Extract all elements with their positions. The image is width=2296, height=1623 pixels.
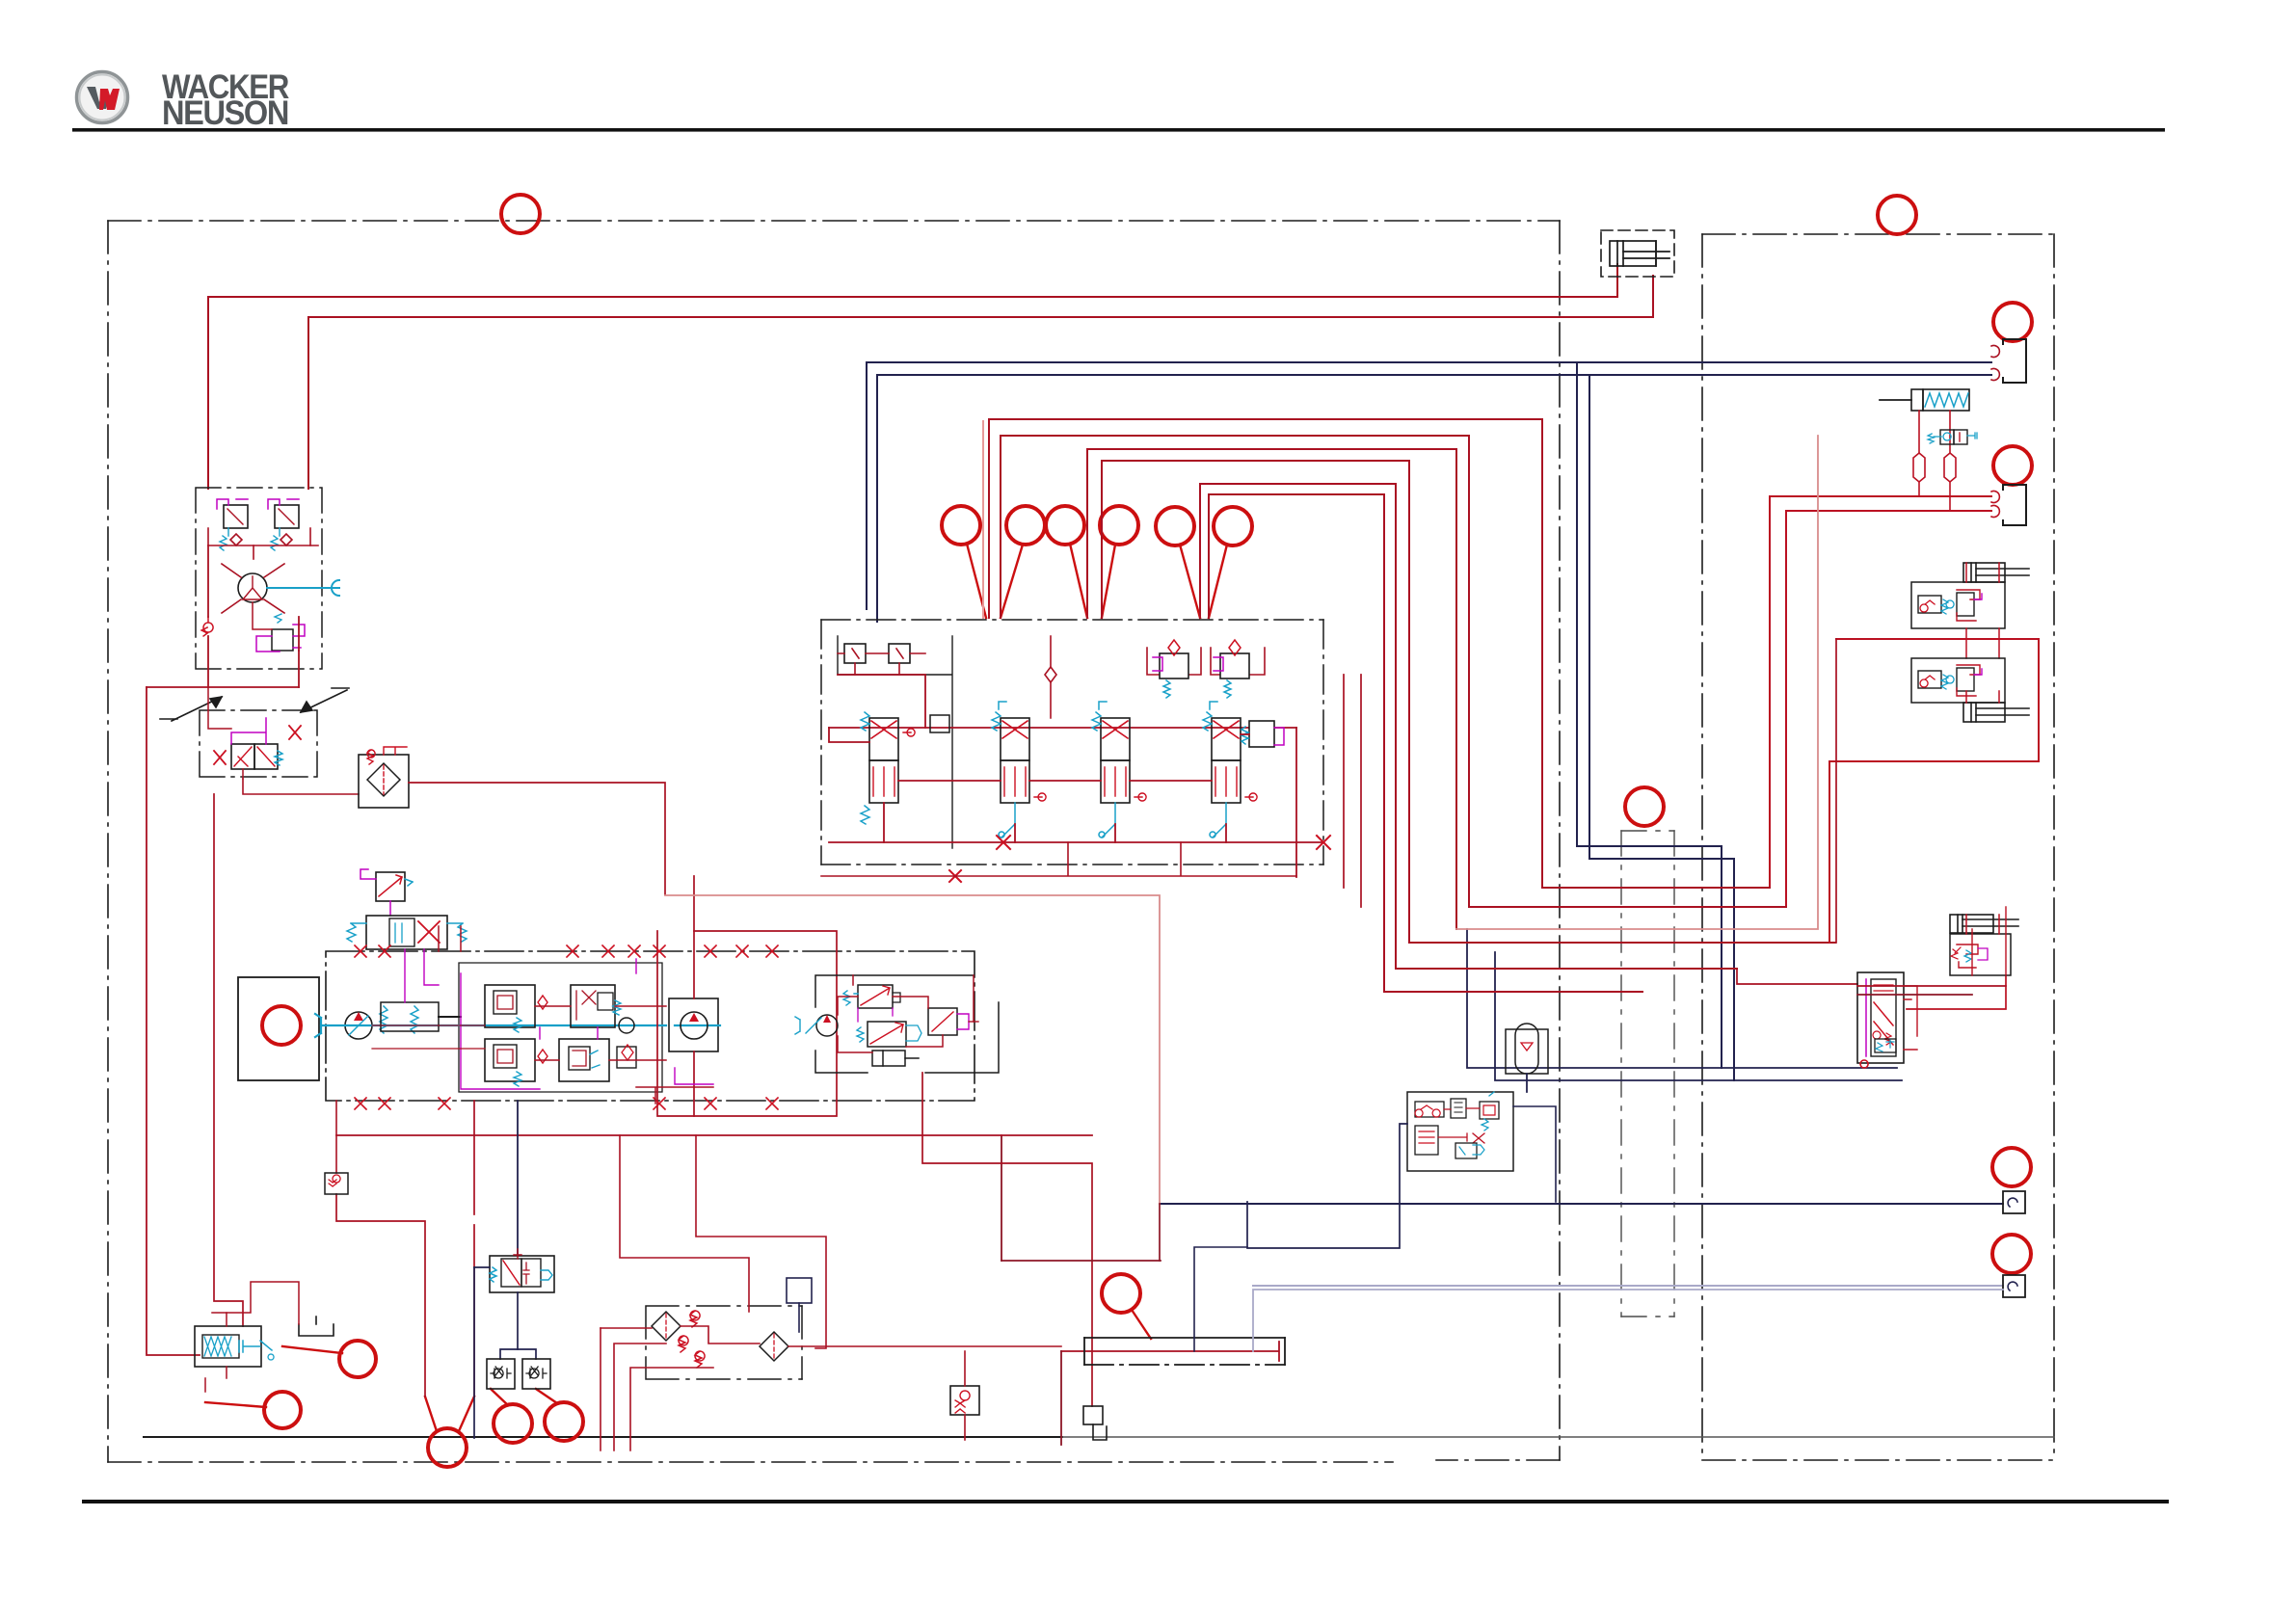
brake valve B2 (268, 499, 299, 550)
regulator valve top (360, 869, 413, 916)
footer rule (82, 1500, 2169, 1503)
pilot block C (571, 985, 621, 1027)
brake valve ports (208, 687, 359, 794)
pilot block D (559, 1039, 636, 1081)
coupler bracket 3 (2003, 1191, 2025, 1213)
orifice block 1 (487, 1359, 515, 1389)
cylinder CU (1963, 563, 2029, 582)
steering unit cluster (1857, 907, 2018, 1068)
spool valve S2 (992, 702, 1046, 838)
orifice block 2 (522, 1359, 550, 1389)
wire red drops under pump (336, 1194, 425, 1397)
supply bus to hand pump (147, 686, 299, 688)
control valve 4way (347, 916, 467, 949)
solenoid pilot unit (1880, 389, 1969, 453)
coupler hooks top (1991, 345, 1999, 380)
navy riser right of cluster (1513, 1074, 1556, 1202)
tank bracket (299, 1317, 334, 1336)
stair 4 (1102, 461, 1835, 943)
capsule drops (1919, 482, 1950, 511)
wire navy pilot B (877, 375, 1991, 622)
arrow marks (160, 688, 349, 721)
wire navy steering pilot A (1467, 929, 1897, 1068)
balloon valvebank 6 (1214, 507, 1252, 545)
gear pump P2 (681, 1012, 707, 1039)
navy branch to orifices (474, 1267, 536, 1438)
stair 2 (1001, 436, 1786, 907)
balloon right lower coupler 2 (1992, 1235, 2031, 1273)
stabilizer cylinder (1610, 241, 1669, 266)
balloon left-box top (501, 195, 540, 233)
red internals pump (372, 926, 713, 1104)
inner corridor dashed box (1621, 831, 1674, 1317)
pressure compensator block A (485, 985, 547, 1032)
balloon drain (428, 1428, 467, 1467)
bank feed bus (829, 675, 1296, 728)
accumulator capsule 2 (1944, 453, 1956, 482)
navy line to lower coupler (1160, 1203, 2003, 1205)
spool valve S1 (861, 712, 915, 824)
lavender line segment (1253, 1290, 2003, 1351)
navy sensor square (787, 1278, 812, 1332)
wire red feed right of pump (922, 1073, 1092, 1406)
filter red piping (601, 1135, 1061, 1450)
balloon valvebank 5 (1156, 507, 1194, 545)
check valve bottom (950, 1351, 979, 1440)
stabilizer cylinder dashed box (1601, 230, 1674, 277)
right attachment boundary (dash-dot) (1702, 234, 2054, 1460)
bank small square port (930, 715, 949, 732)
balloon valvebank 1 (942, 506, 980, 545)
pressure reducing mini valve (1928, 430, 1977, 444)
wordmark WACKER NEUSON (162, 68, 289, 132)
wire red drain drop 2 (473, 1225, 475, 1397)
balloon valvebank 3 (1046, 506, 1084, 545)
balloon orifice 2 (545, 1402, 583, 1441)
wire red tank feed (1061, 1342, 1279, 1361)
bank lower bus (829, 728, 1323, 877)
lavender line to lower coupler (1253, 1285, 2003, 1287)
wire red long LP bus (336, 1134, 1092, 1136)
magenta control lines pump (405, 949, 713, 1089)
accumulator shell (1506, 1029, 1548, 1074)
balloon leader lines (205, 544, 1227, 1431)
balloon pump (262, 1006, 301, 1045)
aux pump body (815, 975, 999, 1073)
valve bank inner frame (838, 636, 952, 848)
hand pump (195, 1313, 274, 1392)
wire navy pilot A (867, 362, 1991, 609)
lock valve box U (1911, 582, 2005, 628)
X marks bottom bus (949, 836, 1330, 882)
wire red main B to cylinder (308, 276, 1653, 489)
left machine boundary (dash-dot) (108, 221, 1560, 1462)
return filter (359, 747, 409, 808)
drain check valve (325, 1173, 348, 1194)
staircase red runs from valve bank up and right (989, 419, 1835, 992)
wire red standpipe (147, 687, 200, 1355)
wire red main A to cylinder (208, 264, 1617, 489)
travel motor work lines (208, 545, 299, 687)
balloon right couplers 2 (1993, 446, 2032, 485)
pilot cap P2 (1211, 640, 1265, 698)
servo piston (380, 1006, 418, 1033)
steering cylinder (1950, 915, 2018, 933)
engine box (238, 977, 319, 1080)
wire red drop to hand pump (214, 794, 243, 1326)
shuttle line with orifices (208, 528, 318, 559)
wire navy steering pilot B (1495, 952, 1902, 1080)
stair5 jog (1737, 969, 1857, 984)
spool valve S3 (1092, 702, 1146, 838)
solenoid shutoff valve (490, 1249, 554, 1292)
balloon right-box top (1878, 196, 1916, 234)
red link handpump top (227, 1282, 299, 1324)
coupler bracket top (2003, 339, 2026, 383)
travel motor M (222, 564, 284, 613)
aux pump circle (795, 1015, 838, 1036)
aux relief valve (843, 985, 900, 1008)
filter outlet to pump (409, 783, 665, 894)
bank relief end (1241, 721, 1284, 747)
brake valve B1 (217, 499, 248, 550)
bank top feeds red (821, 636, 1296, 876)
breather (1083, 1406, 1107, 1440)
pilot cap P1 (1147, 640, 1201, 698)
wire red y1295 link (1001, 1260, 1161, 1262)
coupler hooks 2 (1991, 491, 1999, 517)
outrigger lock cluster upper (1911, 563, 2029, 658)
pilot accumulator cluster (1407, 1024, 1548, 1171)
main pump P1 (345, 1012, 372, 1039)
balloon right couplers 1 (1993, 303, 2032, 341)
red loop to cylinder valve (1907, 975, 2006, 1009)
hatch X marks on housing (355, 945, 778, 1109)
wire red tank drop (1060, 1351, 1062, 1445)
aux red piping (838, 975, 974, 1052)
bypass check symbols (679, 1311, 705, 1368)
right region cylinder loop red (1829, 639, 2039, 943)
balloon valvebank 2 (1006, 506, 1045, 545)
coupler bracket 4 (2003, 1275, 2025, 1297)
navy loop around pilot cluster (1247, 1124, 1407, 1248)
stair 6 (1209, 494, 1642, 992)
light red stair (982, 421, 984, 618)
brake valve boundary (200, 710, 317, 777)
brake release valve body (214, 718, 301, 779)
cylinder CL (1963, 703, 2029, 722)
logo badge circle (77, 72, 128, 123)
lock valve box L (1911, 658, 2005, 703)
stair 5 (1200, 484, 1737, 969)
motor shaft (267, 580, 339, 596)
spool valve S4 (1203, 702, 1257, 838)
pink band line (1456, 436, 1818, 929)
balloon tank (1102, 1274, 1140, 1313)
logo W mark (87, 87, 120, 110)
relief check left (201, 617, 213, 636)
coupling (619, 1018, 634, 1033)
aux solenoid valve (857, 1022, 921, 1047)
suction filter diamond 2 (760, 1332, 788, 1361)
coupler bracket 2 (2003, 485, 2026, 525)
travel motor boundary (196, 488, 322, 669)
balloon orifice 1 (494, 1404, 532, 1443)
wire red drop engine left (335, 1101, 337, 1173)
pressure compensator block B (485, 1039, 547, 1086)
wire red coupler2 feed A (1770, 496, 1991, 888)
pilot valve group box (1407, 1092, 1513, 1171)
steering valve box (1950, 934, 2011, 975)
aux sequence valve (928, 1008, 978, 1035)
pump housing (326, 951, 974, 1101)
stair 3 (1087, 449, 1456, 929)
filter assembly frame (646, 1306, 802, 1379)
aux cylinder symbol (872, 1051, 919, 1066)
wire red v1202 (1159, 1204, 1161, 1261)
balloon right lower coupler 1 (1992, 1148, 2031, 1186)
balloon valve lever (264, 1392, 301, 1428)
suction filter diamond 1 (652, 1312, 681, 1341)
svg-text:NEUSON: NEUSON (162, 94, 288, 132)
red jogs across corridor (1836, 639, 2006, 995)
outrigger lock cluster lower (1911, 658, 2029, 722)
steering priority valve (1857, 972, 1904, 1063)
check valve pair VB (838, 644, 925, 675)
wire navy U down-right 2 (1589, 375, 1734, 1080)
accumulator capsule 1 (1913, 453, 1925, 482)
wire red coupler2 feed B (1786, 511, 1991, 907)
counterbalance valve (253, 602, 305, 652)
balloon corridor (1625, 787, 1664, 826)
balloon valvebank 4 (1100, 506, 1138, 545)
hydraulic tank (1084, 1338, 1285, 1365)
wire navy U down-right (1577, 362, 1722, 1068)
wire red pump to tank loop (665, 895, 1160, 1204)
navy drops to tank (1194, 1247, 1247, 1351)
wire navy pump to solenoid (517, 1101, 519, 1256)
gear pump loop red (657, 876, 837, 1116)
drive shaft (315, 1014, 720, 1037)
stair 1 (989, 419, 1770, 888)
header rule (72, 128, 2165, 132)
valve bank boundary (821, 620, 1323, 865)
floor line (144, 1436, 1062, 1438)
balloon hand pump (339, 1341, 376, 1377)
